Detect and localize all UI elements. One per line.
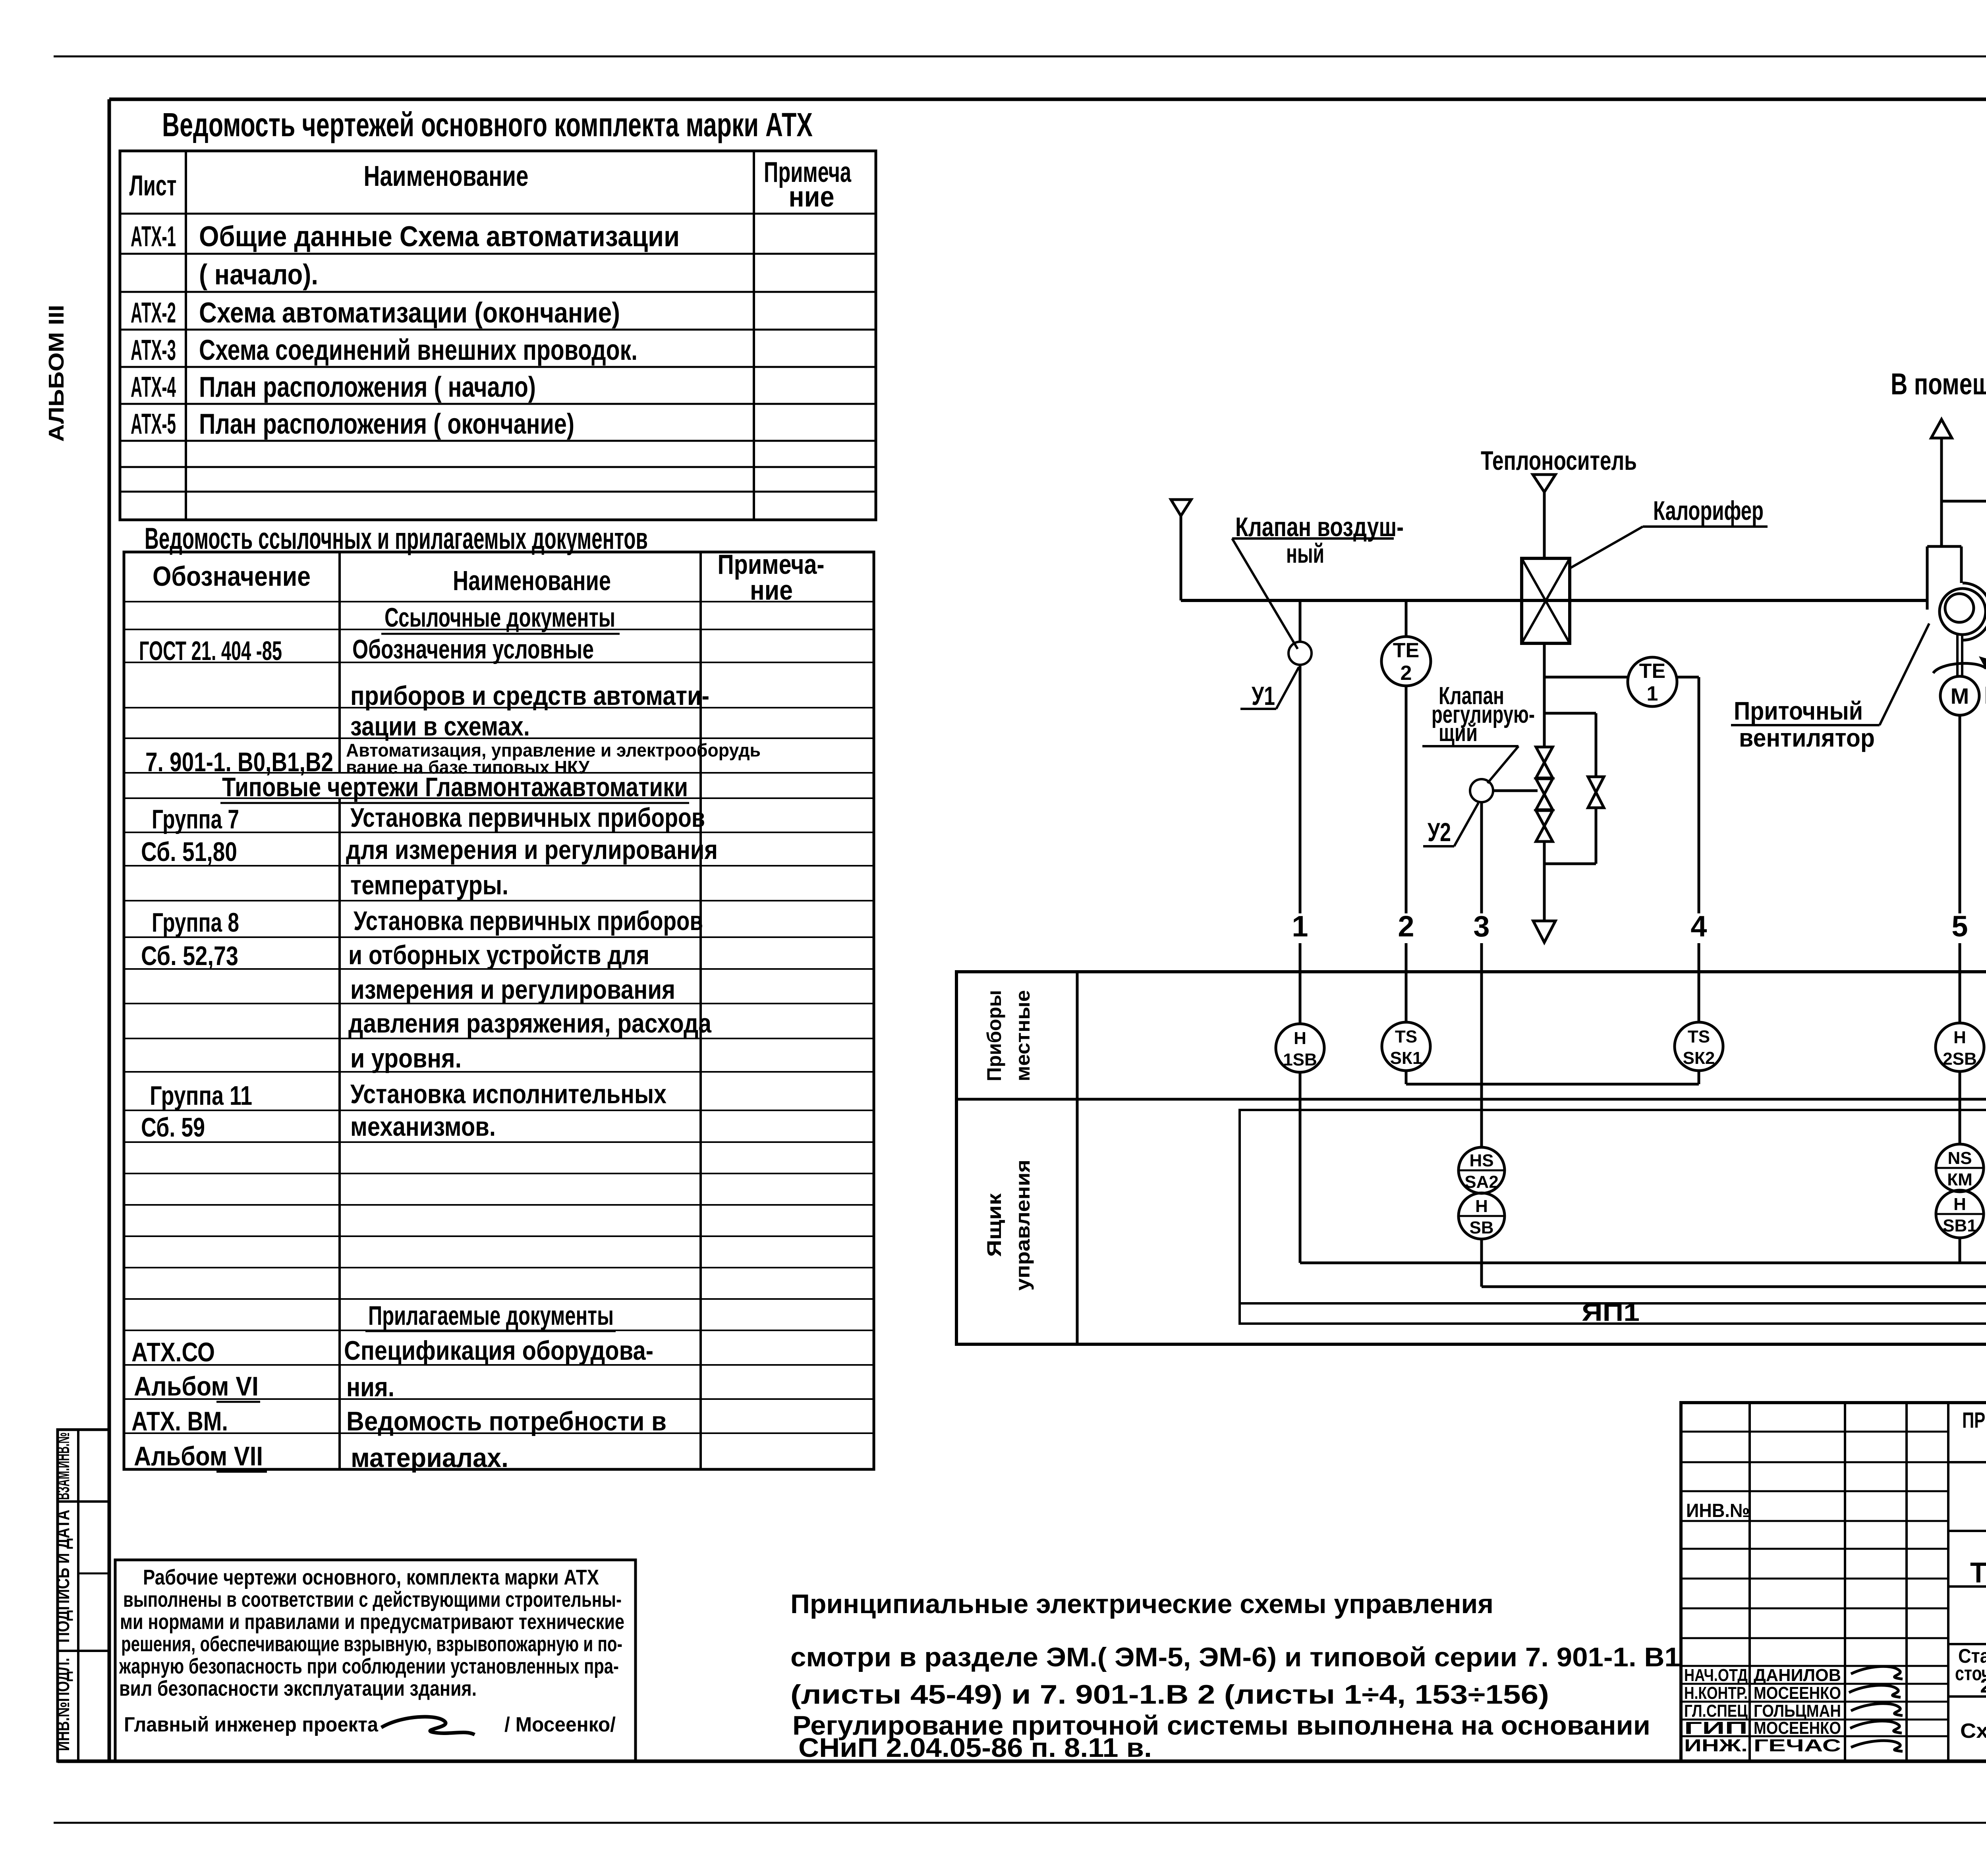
svg-text:Общие данные Схема автоматиз: Общие данные Схема автоматизации [199,221,680,253]
svg-text:ГЛ.СПЕЦ: ГЛ.СПЕЦ [1684,1701,1748,1721]
svg-text:200 м³/сутки.: 200 м³/сутки. [1980,1675,1986,1697]
svg-text:Схема автоматизации: Схема автоматизации [1960,1720,1986,1743]
svg-text:ТS: ТS [1688,1027,1710,1046]
svg-text:Н.КОНТР.: Н.КОНТР. [1684,1683,1748,1703]
svg-text:КМ: КМ [1947,1170,1972,1189]
svg-text:Прилагаемые документы: Прилагаемые документы [368,1301,614,1331]
svg-text:ИНЖ.: ИНЖ. [1684,1736,1748,1755]
svg-text:Теплоноситель: Теплоноситель [1481,446,1637,476]
svg-text:Схема автоматизации (окончани: Схема автоматизации (окончание) [199,297,620,329]
svg-text:Н: Н [1953,1195,1966,1214]
svg-text:Главный инженер проекта: Главный инженер проекта [124,1713,379,1736]
svg-text:ГОЛЬЦМАН: ГОЛЬЦМАН [1754,1701,1841,1721]
svg-text:Калорифер: Калорифер [1653,496,1764,526]
svg-text:1: 1 [1292,910,1308,943]
svg-text:СНиП 2.04.05-86 п. 8.11 в.: СНиП 2.04.05-86 п. 8.11 в. [798,1733,1152,1763]
svg-text:В помещение: В помещение [1891,367,1986,401]
svg-text:Сб. 52,73: Сб. 52,73 [141,941,238,971]
svg-text:Н: Н [1294,1029,1306,1048]
svg-text:ЯП1: ЯП1 [1582,1299,1640,1326]
svg-text:Ведомость потребности в: Ведомость потребности в [346,1406,667,1436]
svg-text:Альбом VII: Альбом VII [134,1441,263,1471]
svg-text:ми нормами и правилами и пр: ми нормами и правилами и предусматривают… [120,1610,624,1634]
svg-text:5: 5 [1951,910,1968,943]
svg-text:2: 2 [1401,662,1412,685]
svg-text:щий: щий [1439,719,1478,747]
svg-text:Н: Н [1953,1028,1966,1047]
svg-text:ТЕ: ТЕ [1639,660,1665,683]
svg-text:SB: SB [1469,1218,1493,1237]
svg-text:ния.: ния. [346,1372,394,1402]
svg-text:выполнены в соответствии с д: выполнены в соответствии с действующими … [123,1588,622,1612]
svg-text:ПОДПИСЬ И ДАТА: ПОДПИСЬ И ДАТА [52,1510,73,1643]
svg-text:Приборы: Приборы [983,990,1005,1081]
svg-text:МП1: МП1 [1984,682,1986,709]
svg-text:приборов и средств автомати-: приборов и средств автомати- [350,681,709,711]
svg-text:Группа 8: Группа 8 [152,907,239,938]
svg-text:НАЧ.ОТД: НАЧ.ОТД [1684,1666,1748,1685]
svg-text:материалах.: материалах. [351,1443,508,1473]
svg-text:температуры.: температуры. [350,870,508,900]
svg-text:зации в схемах.: зации в схемах. [350,711,530,741]
svg-text:ИНВ.№: ИНВ.№ [1686,1500,1750,1521]
svg-text:SB1: SB1 [1943,1216,1977,1235]
svg-text:и уровня.: и уровня. [350,1043,462,1073]
svg-text:3: 3 [1473,910,1489,943]
svg-text:Наименование: Наименование [453,565,611,596]
svg-text:АТХ-5: АТХ-5 [131,408,176,440]
svg-text:NS: NS [1947,1148,1972,1168]
svg-text:У1: У1 [1252,681,1275,710]
svg-text:механизмов.: механизмов. [350,1112,496,1142]
svg-text:жарную безопасность при соб: жарную безопасность при соблюдении устан… [119,1654,619,1678]
svg-text:Наименование: Наименование [364,160,529,192]
svg-text:Установка первичных приборов: Установка первичных приборов [354,906,703,936]
svg-text:Альбом VI: Альбом VI [134,1371,259,1401]
svg-text:У2: У2 [1428,817,1451,847]
svg-text:управления: управления [1012,1160,1034,1291]
svg-text:ГЕЧАС: ГЕЧАС [1754,1736,1841,1755]
svg-text:1SB: 1SB [1283,1050,1317,1069]
svg-text:SК1: SК1 [1390,1048,1422,1068]
svg-text:Ссылочные документы: Ссылочные документы [384,602,615,633]
svg-text:ТS: ТS [1395,1027,1417,1046]
svg-text:Рабочие чертежи основного,: Рабочие чертежи основного, комплекта мар… [143,1565,599,1589]
svg-text:вентилятор: вентилятор [1739,724,1875,752]
svg-text:ГИП: ГИП [1684,1718,1748,1738]
svg-text:и отборных устройств для: и отборных устройств для [348,940,649,970]
svg-text:местные: местные [1012,990,1034,1081]
svg-text:Ведомость ссылочных и прила: Ведомость ссылочных и прилагаемых докуме… [145,522,648,556]
svg-text:ТП 902-3-80. 88: ТП 902-3-80. 88 [1970,1557,1986,1589]
svg-text:1: 1 [1647,682,1658,705]
svg-text:(листы 45-49) и 7. 901-1.В 2: (листы 45-49) и 7. 901-1.В 2 (листы 1÷4,… [790,1679,1549,1710]
svg-text:МОСЕЕНКО: МОСЕЕНКО [1754,1718,1841,1738]
svg-text:НS: НS [1469,1151,1493,1170]
svg-text:Сб. 51,80: Сб. 51,80 [141,837,237,867]
svg-text:2SB: 2SB [1943,1049,1977,1069]
svg-text:смотри в разделе ЭМ.( ЭМ-5,: смотри в разделе ЭМ.( ЭМ-5, ЭМ-6) и типо… [790,1642,1680,1672]
svg-text:План расположения ( начало): План расположения ( начало) [199,371,536,403]
svg-text:Обозначение: Обозначение [153,561,311,592]
svg-text:/ Мосеенко/: / Мосеенко/ [504,1713,616,1736]
svg-text:для измерения и регулирован: для измерения и регулирования [346,835,718,865]
svg-text:2: 2 [1398,910,1414,943]
svg-text:АТХ.СО: АТХ.СО [131,1337,215,1367]
svg-text:АТХ-1: АТХ-1 [131,221,176,253]
svg-text:ТЕ: ТЕ [1393,639,1419,662]
svg-text:ние: ние [750,575,793,606]
svg-text:АТХ-3: АТХ-3 [131,334,176,366]
svg-text:SК2: SК2 [1683,1048,1715,1068]
svg-text:Н: Н [1475,1197,1488,1216]
svg-text:Группа 11: Группа 11 [150,1081,252,1111]
svg-text:измерения и регулирования: измерения и регулирования [350,975,675,1005]
svg-text:4: 4 [1690,910,1707,943]
svg-text:Установка первичных приборов: Установка первичных приборов [350,803,705,833]
svg-text:вил безопасности эксплуатаци: вил безопасности эксплуатации здания. [119,1677,477,1700]
svg-text:АЛЬБОМ III: АЛЬБОМ III [44,305,68,442]
svg-text:ИНВ.№ПОДЛ.: ИНВ.№ПОДЛ. [52,1658,73,1751]
svg-text:Лист: Лист [129,170,177,202]
svg-text:АТХ-2: АТХ-2 [131,297,176,329]
svg-text:Группа 7: Группа 7 [152,804,239,834]
svg-text:ДАНИЛОВ: ДАНИЛОВ [1754,1666,1841,1685]
svg-text:Сб. 59: Сб. 59 [141,1112,205,1143]
svg-text:М: М [1951,683,1969,708]
svg-text:ПРИВЯЗАН: ПРИВЯЗАН [1962,1407,1986,1432]
svg-text:Схема соединений внешних про: Схема соединений внешних проводок. [199,334,638,366]
svg-text:Спецификация оборудова-: Спецификация оборудова- [344,1336,653,1366]
svg-text:( начало).: ( начало). [199,259,318,291]
svg-text:Приточный: Приточный [1734,697,1863,725]
svg-text:ВЗАМ.ИНВ.№: ВЗАМ.ИНВ.№ [52,1432,73,1500]
svg-text:ГОСТ 21. 404 -85: ГОСТ 21. 404 -85 [139,636,282,666]
svg-text:Установка исполнительных: Установка исполнительных [350,1079,667,1109]
svg-text:ние: ние [789,181,835,213]
svg-text:SA2: SA2 [1464,1172,1499,1192]
svg-text:ный: ный [1286,538,1324,569]
svg-text:Обозначения условные: Обозначения условные [352,634,594,664]
svg-text:МОСЕЕНКО: МОСЕЕНКО [1754,1683,1841,1703]
svg-text:решения, обеспечивающие взрыв: решения, обеспечивающие взрывную, взрыво… [121,1632,622,1656]
svg-text:Ящик: Ящик [983,1193,1005,1257]
svg-text:Принципиальные электрические: Принципиальные электрические схемы управ… [790,1589,1493,1619]
svg-text:Типовые чертежи Главмонтажав: Типовые чертежи Главмонтажавтоматики [222,772,688,802]
svg-text:План расположения ( окончани: План расположения ( окончание) [199,408,574,440]
svg-text:Ведомость чертежей основного: Ведомость чертежей основного комплекта м… [162,106,813,143]
svg-text:АТХ-4: АТХ-4 [131,371,176,403]
svg-text:давления разряжения, расхода: давления разряжения, расхода [348,1008,712,1038]
svg-text:АТХ. ВМ.: АТХ. ВМ. [131,1406,228,1436]
